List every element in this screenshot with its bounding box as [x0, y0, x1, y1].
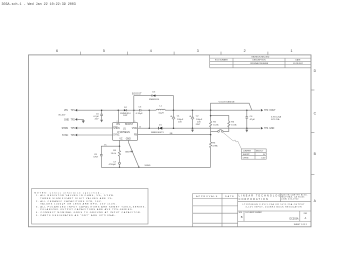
- junction VIN pin: [118, 109, 120, 111]
- wire VSW to D1: [149, 127, 158, 129]
- wire TP2 stub: [77, 119, 83, 120]
- svg-text:VOUT: VOUT: [269, 110, 276, 112]
- capacitor C4 .47uF: [246, 110, 256, 128]
- wire BOOST rail: [134, 95, 152, 97]
- wire L1 to VOUT rail: [165, 109, 260, 111]
- svg-text:POLARIZED OUTPUT CAPACITORS AR: POLARIZED OUTPUT CAPACITORS ARE AVX TPS-…: [40, 208, 133, 211]
- resistor R4 15.0k: [111, 146, 121, 156]
- jumper JP1: [218, 129, 224, 132]
- pin 9 stub GND: [128, 140, 130, 143]
- resistor R3 15.8k: [228, 121, 238, 127]
- zone letters right: [314, 69, 317, 203]
- svg-text:GND: GND: [125, 151, 130, 153]
- wire VSW riser: [148, 110, 150, 128]
- wire D3 anode drop to VOUT node: [173, 96, 175, 111]
- node BOOST junction: [133, 109, 135, 111]
- svg-text:LT1976EGN 3.3V/1.25A OR 5V/1.2: LT1976EGN 3.3V/1.25A OR 5V/1.25A OUTPUT: [243, 203, 306, 206]
- junction C4 bottom: [246, 127, 248, 129]
- svg-text:VIN: VIN: [64, 110, 68, 112]
- notes box: [32, 189, 148, 225]
- IC U1 LT1976EGN: [113, 123, 138, 141]
- svg-text:DNT: DNT: [123, 115, 128, 117]
- resistor R2 15.8k: [210, 121, 220, 127]
- svg-text:1. ALL RESISTOR VALUES IN OHMS: 1. ALL RESISTOR VALUES IN OHMS, 5%, 1/10…: [36, 194, 115, 197]
- svg-text:VSW: VSW: [132, 128, 138, 130]
- svg-text:NOTES: unless otherwise specif: NOTES: unless otherwise specified...: [34, 192, 104, 195]
- test point TP4 (GND): [261, 127, 275, 130]
- svg-text:VIN: VIN: [116, 124, 120, 126]
- svg-text:SHEET 1 OF 1: SHEET 1 OF 1: [294, 224, 308, 226]
- wire R3 top link: [211, 116, 229, 122]
- wire SHDN: [77, 127, 112, 129]
- test point TP3 (VOUT): [261, 109, 276, 112]
- junction SGND/GND wire: [138, 167, 140, 169]
- svg-text:REVISION RECORD: REVISION RECORD: [252, 57, 270, 59]
- ground label at GND pin: [125, 151, 133, 154]
- svg-text:5: 5: [103, 49, 105, 53]
- svg-text:3V-15V: 3V-15V: [58, 114, 66, 116]
- svg-text:1: 1: [291, 49, 293, 53]
- wire VC to C8: [101, 146, 119, 154]
- wire BOOST riser: [133, 96, 135, 111]
- svg-text:SHDN: SHDN: [113, 128, 120, 130]
- zone ticks top: [80, 52, 268, 55]
- svg-text:2: 2: [117, 121, 118, 123]
- jumper select table: [241, 149, 266, 160]
- svg-text:TP5: TP5: [71, 128, 76, 130]
- pin 11 stub VC: [119, 140, 121, 146]
- svg-text:100µF: 100µF: [177, 119, 184, 121]
- svg-text:100µF: 100µF: [196, 119, 203, 121]
- svg-text:DNT: DNT: [94, 157, 99, 159]
- junction SGND/C7: [119, 167, 121, 169]
- leader to jumper select table: [223, 133, 241, 149]
- svg-text:GND: GND: [64, 119, 69, 121]
- zone numbers top: [56, 49, 293, 53]
- svg-text:GND: GND: [126, 138, 131, 140]
- junction VSW: [149, 109, 151, 111]
- svg-text:DESCRIPTION: DESCRIPTION: [253, 60, 267, 62]
- svg-text:4. CONNECT NOMINAL GNDS TO GRO: 4. CONNECT NOMINAL GNDS TO GROUND AT INP…: [36, 211, 142, 214]
- svg-text:3. ALL POLARIZED INPUT CAPACIT: 3. ALL POLARIZED INPUT CAPACITORS ARE KE…: [36, 205, 146, 208]
- ground below C4: [245, 128, 248, 132]
- svg-text:DATE: DATE: [225, 195, 235, 198]
- pin 2 stub VIN: [117, 110, 119, 122]
- CIRCUIT: [58, 91, 281, 168]
- svg-text:SIZE: SIZE: [239, 212, 243, 214]
- svg-text:3.3V: 3.3V: [261, 158, 266, 160]
- junction C1 bottom: [173, 127, 175, 129]
- capacitor C7 4700pF: [109, 156, 121, 167]
- drawing frame: [29, 55, 312, 227]
- pin 16 stub VSW wire: [138, 127, 150, 129]
- pin 1 stub BOOST: [133, 110, 135, 122]
- svg-text:BOOST: BOOST: [132, 93, 142, 95]
- svg-text:10V: 10V: [178, 122, 182, 124]
- svg-text:DNT: DNT: [196, 124, 201, 126]
- svg-text:1: 1: [135, 121, 136, 123]
- ground below C2: [191, 128, 194, 132]
- wire SYNC: [77, 134, 112, 136]
- test point TP1 (VIN input): [64, 109, 77, 112]
- svg-text:0.33µF: 0.33µF: [136, 113, 144, 115]
- net label VOUT/SENSE bracket: [211, 101, 252, 110]
- svg-text:TP2: TP2: [71, 119, 76, 121]
- wire GND pin diagonal to SGND: [129, 143, 139, 167]
- svg-text:SHDN: SHDN: [62, 128, 69, 130]
- svg-text:ORIGINAL RELEASE: ORIGINAL RELEASE: [250, 62, 269, 65]
- svg-text:15.0k: 15.0k: [111, 153, 117, 155]
- svg-text:10µH: 10µH: [158, 113, 164, 115]
- svg-text:15.8k: 15.8k: [213, 125, 219, 127]
- wire D2 to BOOST node to C3: [127, 109, 140, 111]
- svg-text:FMMD914: FMMD914: [149, 99, 160, 101]
- junction R2/R3 top link: [210, 115, 212, 117]
- svg-text:DC303A: DC303A: [289, 218, 298, 221]
- inductor L1 10uH: [156, 106, 165, 115]
- junction FB node: [210, 134, 212, 136]
- title block: [193, 193, 311, 226]
- junction VIN/C5: [101, 109, 103, 111]
- svg-text:FB: FB: [134, 135, 137, 137]
- diode D3 FMMD914: [149, 91, 160, 101]
- zone ticks right: [311, 90, 314, 174]
- svg-text:25V: 25V: [95, 119, 99, 121]
- svg-text:.47µF: .47µF: [249, 119, 255, 121]
- svg-text:TP1: TP1: [71, 110, 76, 112]
- svg-text:03-18-2002: 03-18-2002: [293, 63, 303, 65]
- wire SGND rail: [101, 166, 210, 168]
- svg-text:SHORT: SHORT: [243, 154, 251, 156]
- svg-text:(408) 432-1900: (408) 432-1900: [281, 199, 298, 201]
- svg-text:2. ALL CERAMIC CAPACITORS X7R,: 2. ALL CERAMIC CAPACITORS X7R, 16V.: [36, 200, 102, 203]
- wire C3 to VSW junction to L1: [141, 109, 156, 111]
- svg-text:B: B: [241, 215, 243, 219]
- junction R2 top on VOUT rail: [210, 109, 212, 111]
- svg-text:LT1976EGN: LT1976EGN: [117, 132, 130, 134]
- junction VOUT node: [173, 109, 175, 111]
- svg-text:APPROVALS: APPROVALS: [196, 195, 218, 198]
- svg-text:VALUES 1000pF OR LESS ARE NPO,: VALUES 1000pF OR LESS ARE NPO, 25V ±10%.: [40, 203, 117, 206]
- svg-text:3.3V/1.25A: 3.3V/1.25A: [271, 115, 282, 118]
- svg-text:TP6: TP6: [71, 135, 76, 137]
- svg-text:6: 6: [56, 49, 58, 53]
- wire VIN rail: [77, 109, 124, 111]
- wire FB: [138, 134, 211, 136]
- junction C2 top: [192, 109, 194, 111]
- svg-text:TP4: TP4: [264, 128, 269, 130]
- capacitor C1 100uF (polarized): [170, 110, 184, 128]
- svg-text:THREE SIGNIFICANT DIGIT VALUES: THREE SIGNIFICANT DIGIT VALUES ARE 1%.: [40, 197, 113, 200]
- svg-text:4.99k: 4.99k: [212, 145, 218, 147]
- junction VC node: [119, 145, 121, 147]
- svg-text:OPEN: OPEN: [243, 158, 249, 160]
- capacitor C8 (DNT): [94, 154, 103, 167]
- diode D2 FMMD914 (DNT): [120, 107, 131, 117]
- wire R2 drop: [210, 110, 212, 121]
- diode D1 MBRS360: [151, 125, 164, 134]
- test point TP5 (SHDN): [62, 127, 78, 130]
- capacitor C3 0.33uF: [136, 106, 144, 115]
- svg-text:ECO NUMBER: ECO NUMBER: [215, 60, 228, 62]
- svg-text:16: 16: [139, 126, 141, 128]
- junction C2 bottom: [192, 127, 194, 129]
- wire D1 to PGND rail: [162, 127, 260, 129]
- wire jumper link: [211, 130, 218, 132]
- wire R2 bottom to FB node: [210, 127, 212, 135]
- svg-text:5. PARTS DESIGNATED AS "DNT" A: 5. PARTS DESIGNATED AS "DNT" ARE OPTIONA…: [36, 214, 117, 217]
- svg-text:2: 2: [244, 49, 246, 53]
- svg-text:MBRS360T3: MBRS360T3: [151, 132, 164, 134]
- junction VSW/D1: [149, 127, 151, 129]
- svg-text:3-15V INPUT, 200KHZ BUCK REGUL: 3-15V INPUT, 200KHZ BUCK REGULATOR: [246, 206, 303, 209]
- svg-text:SYNC: SYNC: [62, 135, 69, 137]
- svg-text:SELECT: SELECT: [256, 151, 264, 153]
- resistor R6 4.99k: [210, 135, 219, 168]
- svg-text:DATE: DATE: [296, 59, 302, 62]
- capacitor C2 100uF (polarized, DNT): [189, 110, 203, 128]
- svg-text:DOCUMENT NUMBER: DOCUMENT NUMBER: [245, 212, 262, 214]
- wire R3 bottom to jumper: [223, 127, 229, 131]
- svg-text:4: 4: [150, 49, 152, 53]
- svg-text:SGND: SGND: [145, 165, 151, 167]
- svg-text:CORPORATION: CORPORATION: [239, 198, 269, 201]
- svg-text:BOOST: BOOST: [125, 124, 134, 126]
- svg-text:SYNC: SYNC: [113, 135, 120, 137]
- svg-text:303A.sch-1 - Wed Jan 22 10:22:: 303A.sch-1 - Wed Jan 22 10:22:39 2003: [2, 2, 76, 7]
- capacitor C5: [93, 110, 103, 120]
- test point TP2 (GND input): [64, 118, 77, 121]
- svg-text:JUMPER: JUMPER: [243, 151, 252, 153]
- junction C4 top: [246, 109, 248, 111]
- svg-text:3: 3: [197, 49, 199, 53]
- svg-text:VC: VC: [119, 138, 123, 140]
- svg-text:GND: GND: [269, 128, 274, 130]
- svg-text:15.8k: 15.8k: [231, 125, 237, 127]
- test point TP6 (SYNC): [62, 134, 77, 137]
- ground below C5: [100, 120, 103, 123]
- svg-text:4700pF: 4700pF: [109, 164, 117, 166]
- svg-text:5V/1.25A: 5V/1.25A: [271, 118, 280, 121]
- svg-text:TP3: TP3: [264, 110, 269, 112]
- ground at TP2: [82, 121, 85, 124]
- revision record table: [210, 55, 311, 68]
